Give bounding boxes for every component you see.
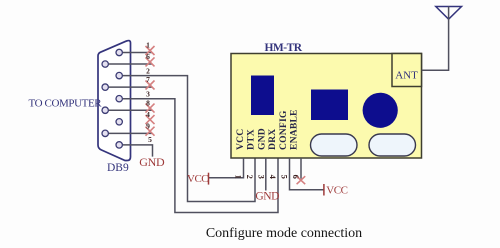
- svg-text:GND: GND: [255, 191, 279, 203]
- DB9 pin 7 circle: [102, 84, 108, 90]
- svg-text:VCC: VCC: [326, 184, 347, 196]
- module pin 6 stub: [300, 158, 302, 179]
- svg-text:ENABLE: ENABLE: [289, 109, 300, 150]
- svg-text:GND: GND: [139, 155, 165, 169]
- svg-text:VCC: VCC: [235, 129, 246, 150]
- svg-text:4: 4: [146, 110, 150, 119]
- svg-text:1: 1: [146, 41, 150, 50]
- crystal circle: [363, 93, 398, 128]
- svg-text:9: 9: [146, 121, 150, 130]
- svg-text:TO COMPUTER: TO COMPUTER: [29, 98, 103, 110]
- svg-text:DRX: DRX: [267, 129, 278, 150]
- module pin 3 wire to GND: [265, 158, 267, 191]
- wire stub pin9: [109, 132, 152, 134]
- DB9 pin 5 circle: [116, 142, 122, 148]
- button right: [369, 134, 416, 156]
- DB9 connector shell: [98, 41, 131, 161]
- svg-text:5: 5: [280, 175, 290, 179]
- wire stub pin8: [109, 109, 152, 111]
- svg-text:ANT: ANT: [395, 70, 418, 82]
- antenna symbol: [436, 7, 462, 20]
- module pin 1 wire to VCC: [209, 158, 244, 178]
- wire stub pin6: [109, 63, 152, 65]
- svg-text:2: 2: [245, 175, 255, 179]
- button left: [311, 134, 358, 156]
- VCC tick left: [208, 173, 210, 185]
- svg-text:1: 1: [234, 175, 244, 179]
- DB9 pin 3 circle: [116, 96, 122, 102]
- svg-text:3: 3: [257, 175, 267, 179]
- antenna wire: [422, 7, 449, 71]
- X mark pin6: [146, 57, 155, 66]
- DB9 pin 8 circle: [102, 107, 108, 113]
- DB9 pin 1 circle: [116, 49, 122, 55]
- DB9 pin 6 circle: [102, 61, 108, 67]
- module pin 5 wire to VCC: [290, 158, 324, 190]
- wire DB9 pin2 to module DTX: [123, 76, 255, 202]
- svg-text:6: 6: [146, 52, 150, 61]
- DB9 pin 4 circle: [116, 119, 122, 125]
- HM-TR module body: [231, 54, 422, 159]
- X mark pin9: [146, 127, 155, 136]
- svg-text:Configure mode connection: Configure mode connection: [206, 226, 362, 241]
- svg-text:6: 6: [291, 175, 301, 179]
- svg-text:CONFIG: CONFIG: [278, 110, 289, 150]
- svg-text:DB9: DB9: [107, 162, 129, 174]
- svg-text:8: 8: [146, 98, 150, 107]
- wire stub pin1: [123, 52, 152, 54]
- svg-text:GND: GND: [256, 128, 267, 150]
- svg-text:7: 7: [146, 75, 150, 84]
- wire DB9 pin5 to GND: [123, 145, 153, 157]
- ANT box: [392, 54, 422, 87]
- wire stub pin7: [109, 86, 152, 88]
- DB9 pin 2 circle: [116, 72, 122, 78]
- svg-text:VCC: VCC: [187, 173, 208, 185]
- X mark pin7: [146, 81, 155, 90]
- IC block middle: [311, 90, 348, 121]
- VCC tick right: [323, 184, 325, 196]
- X mark pin6 module: [297, 176, 306, 184]
- DB9 pin 9 circle: [102, 130, 108, 136]
- wire DB9 pin3 to module DRX: [123, 99, 278, 213]
- svg-text:5: 5: [148, 135, 152, 144]
- svg-text:HM-TR: HM-TR: [264, 42, 302, 54]
- svg-text:DTX: DTX: [246, 129, 257, 150]
- svg-text:4: 4: [268, 175, 278, 180]
- IC block left: [251, 76, 274, 116]
- X mark pin1: [146, 46, 155, 55]
- X mark pin4: [146, 115, 155, 124]
- X mark pin8: [146, 104, 155, 113]
